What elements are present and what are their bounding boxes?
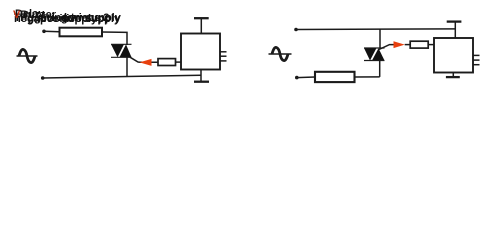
triac T2 bbox=[364, 48, 385, 61]
wire R1 to triac top bbox=[102, 32, 127, 45]
top rail wire bbox=[296, 28, 455, 31]
U2 right pins bbox=[473, 54, 480, 56]
opto-triac driver U2 bbox=[434, 38, 473, 73]
gate wire of T1 bbox=[130, 57, 158, 62]
resistor R4 bbox=[315, 72, 355, 82]
caption red word bbox=[13, 10, 20, 21]
node C (top terminal dot) bbox=[294, 28, 298, 32]
AC source V2 bbox=[269, 47, 292, 60]
U2 bottom terminal bar bbox=[446, 76, 460, 78]
opto-triac driver U1 bbox=[181, 34, 220, 70]
U2 top terminal bar bbox=[447, 20, 462, 22]
U2 top terminal pin bbox=[454, 22, 456, 38]
wire arrow to resistor R3 bbox=[405, 44, 411, 46]
gate wire of T2 bbox=[379, 45, 395, 50]
resistor R1 bbox=[60, 28, 103, 37]
node D (bottom terminal dot) bbox=[295, 76, 299, 80]
AC source V1 bbox=[17, 49, 38, 62]
resistor R3 (gate) bbox=[410, 41, 428, 48]
wire top rail to triac T2 bbox=[379, 29, 381, 48]
current arrow (red, pointing right) bbox=[394, 41, 405, 48]
triac T1 bbox=[111, 44, 132, 57]
caption overlapped text block bbox=[14, 14, 97, 25]
bottom rail wire bbox=[43, 75, 201, 78]
node B (bottom left terminal dot) bbox=[41, 76, 45, 80]
wire triac bottom to riser bbox=[379, 60, 381, 77]
U1 bottom terminal pin bbox=[200, 70, 202, 82]
U2 bottom terminal pin bbox=[452, 73, 454, 78]
node A (top left terminal dot) bbox=[42, 30, 46, 34]
wire R2 to opto-driver U1 bbox=[176, 61, 182, 63]
U1 right pins bbox=[220, 51, 227, 53]
current arrow (red, pointing left) bbox=[140, 59, 152, 66]
wire R3 to opto-driver U2 bbox=[428, 44, 434, 46]
wire node A to resistor R1 bbox=[44, 30, 60, 33]
U1 top terminal pin bbox=[200, 18, 202, 33]
wire node D to resistor R4 bbox=[297, 76, 315, 79]
wire R4 to triac riser bbox=[355, 76, 380, 78]
wire triac bottom to bottom rail bbox=[126, 57, 128, 76]
U1 bottom terminal bar bbox=[194, 81, 209, 83]
U1 top terminal bar bbox=[194, 17, 209, 19]
resistor R2 (gate) bbox=[158, 59, 176, 66]
